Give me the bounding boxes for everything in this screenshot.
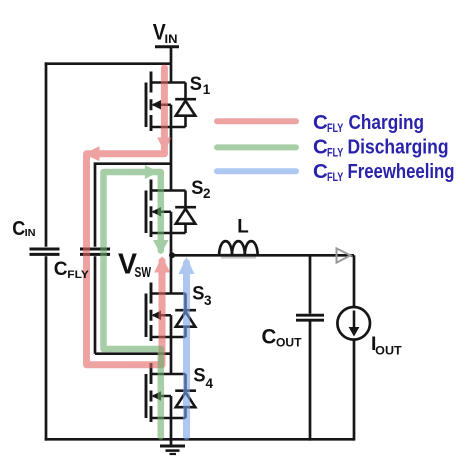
svg-text:Discharging: Discharging bbox=[348, 135, 449, 158]
svg-text:1: 1 bbox=[203, 82, 211, 97]
svg-text:C: C bbox=[54, 258, 68, 280]
svg-text:C: C bbox=[313, 160, 328, 183]
svg-text:FLY: FLY bbox=[327, 123, 344, 135]
svg-text:4: 4 bbox=[206, 376, 214, 391]
svg-text:3: 3 bbox=[204, 293, 212, 308]
svg-text:S: S bbox=[191, 177, 203, 199]
svg-text:OUT: OUT bbox=[375, 346, 402, 358]
svg-text:Freewheeling: Freewheeling bbox=[348, 160, 455, 183]
svg-text:S: S bbox=[190, 73, 202, 95]
svg-text:IN: IN bbox=[25, 227, 36, 239]
svg-text:SW: SW bbox=[135, 265, 152, 281]
svg-text:FLY: FLY bbox=[327, 148, 344, 160]
svg-text:L: L bbox=[237, 216, 249, 238]
svg-text:Charging: Charging bbox=[349, 111, 425, 134]
svg-text:C: C bbox=[262, 325, 277, 349]
svg-text:C: C bbox=[313, 135, 328, 158]
svg-text:C: C bbox=[12, 217, 25, 240]
svg-text:OUT: OUT bbox=[276, 338, 302, 350]
svg-text:IN: IN bbox=[165, 32, 178, 46]
svg-text:S: S bbox=[193, 365, 205, 387]
svg-text:S: S bbox=[192, 283, 204, 305]
svg-text:C: C bbox=[313, 111, 328, 134]
svg-text:2: 2 bbox=[203, 186, 211, 201]
svg-text:FLY: FLY bbox=[327, 172, 344, 184]
svg-text:FLY: FLY bbox=[67, 269, 89, 281]
